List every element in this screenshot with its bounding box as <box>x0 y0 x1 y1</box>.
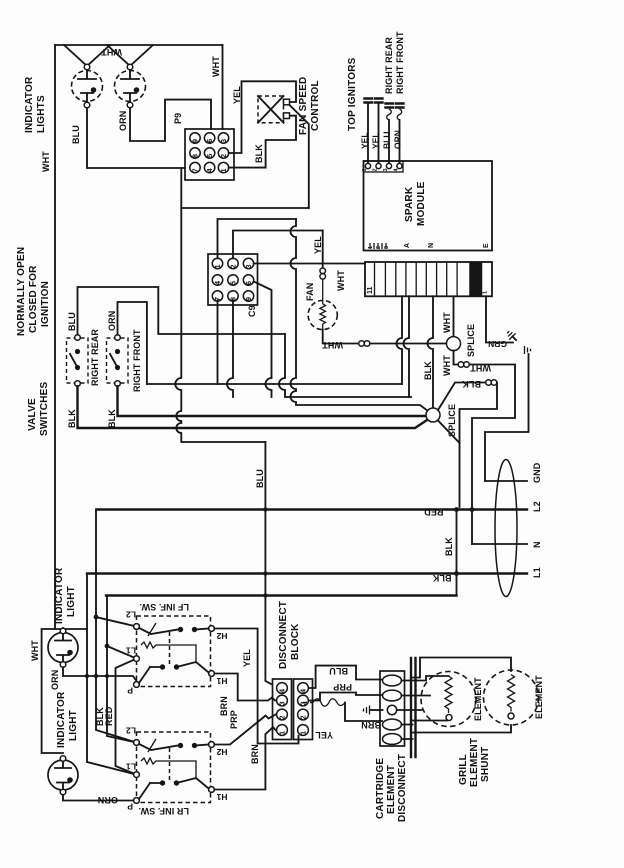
svg-text:WHT: WHT <box>41 151 51 172</box>
wire BLK2 left drop to LR L2 <box>107 596 137 743</box>
LF terminal P <box>127 682 139 696</box>
wire element1 bottom to bars <box>402 721 448 725</box>
indicator lamp C <box>48 628 78 667</box>
wire BLU block B4 to cartridge oval1 <box>309 666 382 688</box>
svg-text:DISCONNECT: DISCONNECT <box>278 601 289 669</box>
wire module drop vertical with hops to splice2 <box>291 219 429 411</box>
spark module lower terminal marks <box>368 243 390 249</box>
label SPARK MODULE <box>404 181 427 226</box>
chassis ground G3 <box>364 706 383 715</box>
junction dot ORN row a <box>85 674 89 678</box>
wire YEL vertical to fan connector <box>322 231 324 269</box>
svg-text:YEL: YEL <box>242 649 252 667</box>
label GRILL ELEMENT SHUNT <box>458 738 491 787</box>
wire BLK inline connector to splice2 <box>438 383 497 508</box>
svg-text:2: 2 <box>376 246 382 249</box>
svg-text:3: 3 <box>383 168 389 171</box>
P9 pin 5 <box>204 148 214 158</box>
svg-text:BLK: BLK <box>254 144 264 163</box>
fan speed control box <box>258 96 284 123</box>
wire strip drop 4 to splice1 <box>453 296 455 337</box>
block A1 <box>277 725 288 736</box>
svg-text:5: 5 <box>231 281 238 285</box>
C9 pin 1 <box>212 258 222 268</box>
svg-text:1: 1 <box>301 731 308 735</box>
block A3 <box>277 695 288 706</box>
wire YEL LF H2 to disconnect B1 <box>214 629 298 744</box>
svg-text:LF INF. SW.: LF INF. SW. <box>139 602 189 612</box>
svg-text:ORN: ORN <box>118 111 128 131</box>
svg-text:CARTRIDGE: CARTRIDGE <box>375 758 386 819</box>
wire strip drop 1 with hop <box>397 296 403 384</box>
svg-text:BRN: BRN <box>219 696 229 716</box>
wire BRN LF H1 to block A3 <box>214 674 275 701</box>
svg-text:YEL: YEL <box>371 132 381 149</box>
block A2 <box>277 709 288 720</box>
svg-text:1: 1 <box>221 168 228 172</box>
fan motor (dashed circle with coil) <box>308 279 337 329</box>
P9 pin 9 <box>190 133 200 143</box>
svg-text:L1: L1 <box>532 567 542 578</box>
wire valve sw2 bottom BLK long run <box>118 386 427 416</box>
wire RED long run (L2) <box>97 508 528 510</box>
svg-text:PRP: PRP <box>229 710 239 729</box>
block B4 <box>298 683 309 694</box>
ignitor 1 electrode <box>365 99 373 164</box>
svg-text:INDICATOR: INDICATOR <box>56 691 67 748</box>
svg-text:YEL: YEL <box>232 86 242 104</box>
wire strip GRN drop to ground <box>486 296 513 342</box>
ignitor 2 electrode <box>375 99 383 164</box>
svg-text:L2: L2 <box>126 610 136 620</box>
svg-text:BLK: BLK <box>107 409 117 428</box>
wire ORN lamp C to LF P <box>63 667 137 684</box>
spark module pin S1 <box>362 163 371 171</box>
svg-text:7: 7 <box>215 297 222 301</box>
wire BLK2 long run <box>106 594 457 596</box>
wire WHT left vertical bus <box>54 45 56 629</box>
svg-text:6: 6 <box>246 281 253 285</box>
svg-text:9: 9 <box>246 297 253 301</box>
wire diag to LF L1 <box>107 646 137 659</box>
svg-text:YEL: YEL <box>313 236 323 254</box>
block B2 <box>298 709 309 720</box>
svg-text:1: 1 <box>215 264 222 268</box>
wire RED left drop to LR L2 <box>96 510 137 743</box>
svg-text:BLU: BLU <box>71 125 81 144</box>
svg-text:L2: L2 <box>126 726 136 736</box>
block B3 <box>298 695 309 706</box>
svg-text:4: 4 <box>280 689 287 693</box>
svg-text:WHT: WHT <box>211 56 221 77</box>
svg-text:3: 3 <box>384 246 390 249</box>
wire valve sw1 top to mid bus <box>78 287 286 335</box>
svg-text:SHUNT: SHUNT <box>480 747 491 782</box>
svg-text:BLU: BLU <box>382 132 392 149</box>
svg-text:WHT: WHT <box>442 312 452 333</box>
wire WHT top bus to P9 pin3 <box>222 45 224 129</box>
svg-text:LIGHT: LIGHT <box>68 710 79 741</box>
junction dot LF L1 diag <box>105 644 110 649</box>
valve switch RIGHT FRONT <box>107 335 129 387</box>
svg-text:RED: RED <box>424 507 444 517</box>
power cord oval <box>495 460 517 597</box>
svg-text:N: N <box>532 541 542 548</box>
wire ignition net horizontal to BLU vertical <box>181 207 308 209</box>
junction dot BLU/BLK2 <box>263 593 267 597</box>
P9 pin 7 <box>190 162 200 172</box>
svg-text:ELEMENT: ELEMENT <box>469 738 480 787</box>
svg-text:8: 8 <box>193 154 200 158</box>
svg-text:RIGHT REAR: RIGHT REAR <box>384 37 394 94</box>
wire C9 pin7 down to valve bus <box>217 300 219 384</box>
disconnect block strip B <box>294 679 313 740</box>
P9 pin 3 <box>218 133 228 143</box>
junction dot ORN row c <box>105 674 109 678</box>
label INDICATOR LIGHTS <box>24 76 47 133</box>
svg-text:GRILL: GRILL <box>458 754 469 785</box>
wire BLK left drop to LR L1 <box>87 574 137 775</box>
svg-text:LIGHTS: LIGHTS <box>36 95 47 133</box>
svg-text:ORN: ORN <box>107 311 117 331</box>
C9 pin 8 <box>228 291 238 301</box>
wire BLU vertical to disconnect block A4 <box>265 442 271 684</box>
spark module pin S3 <box>383 163 392 171</box>
svg-text:ORN: ORN <box>393 130 403 149</box>
cartridge oval 2 <box>383 690 402 701</box>
svg-text:L2: L2 <box>532 501 542 512</box>
svg-text:YEL: YEL <box>360 132 370 149</box>
svg-text:SWITCHES: SWITCHES <box>39 381 50 436</box>
svg-text:ORN: ORN <box>50 670 60 690</box>
svg-text:1: 1 <box>368 246 374 249</box>
C9 pin 3 <box>243 258 253 268</box>
P9 pin 1 <box>218 162 228 172</box>
LR terminal L2 <box>126 726 140 746</box>
svg-text:A: A <box>404 243 411 248</box>
wire valve sw1 branch vertical with hop to splice row <box>279 334 411 397</box>
svg-text:1: 1 <box>362 168 368 171</box>
junction dot BLU/RED <box>263 507 267 511</box>
svg-text:ELEMENT: ELEMENT <box>534 675 544 719</box>
svg-text:8: 8 <box>231 297 238 301</box>
svg-text:2: 2 <box>280 715 287 719</box>
valve switch RIGHT REAR <box>67 335 89 387</box>
LR switch internals <box>139 739 209 799</box>
svg-text:LR INF. SW.: LR INF. SW. <box>138 806 189 816</box>
wire strip drop 2 with hop <box>404 296 409 397</box>
svg-text:7: 7 <box>193 168 200 172</box>
P9 pin 8 <box>190 148 200 158</box>
junction dot L2 b <box>470 507 475 512</box>
svg-text:E: E <box>483 243 490 248</box>
svg-text:H2: H2 <box>216 747 227 757</box>
svg-text:BLK: BLK <box>462 379 481 389</box>
wire BLK long run (L1) <box>87 572 527 574</box>
svg-text:RIGHT FRONT: RIGHT FRONT <box>132 329 142 392</box>
wire BLU vertical ignition bus with hops <box>175 168 265 442</box>
wire C9 pin2 up and right to fan YEL <box>233 231 323 259</box>
LF terminal H1 <box>209 671 228 686</box>
svg-text:MODULE: MODULE <box>416 181 427 226</box>
wire WHT splice1 down to neutral run <box>454 351 516 544</box>
svg-text:P9: P9 <box>173 113 183 124</box>
svg-text:DISCONNECT: DISCONNECT <box>397 754 408 822</box>
svg-text:WHT: WHT <box>30 640 40 661</box>
LF switch internals <box>139 623 209 683</box>
indicator lamp A (neon, dashed) <box>72 64 103 108</box>
ignitor 4 electrode (spark) <box>396 104 404 164</box>
svg-text:LIGHT: LIGHT <box>66 586 77 617</box>
terminal strip P1 <box>365 262 492 296</box>
svg-text:SPLICE: SPLICE <box>466 324 476 357</box>
svg-text:RIGHT FRONT: RIGHT FRONT <box>395 31 405 94</box>
wire V-drop to lamp A <box>64 45 110 66</box>
svg-text:FAN SPEED: FAN SPEED <box>298 77 309 135</box>
C9 pin 9 <box>243 291 253 301</box>
connector P9 <box>173 113 234 180</box>
svg-text:INDICATOR: INDICATOR <box>24 76 35 133</box>
wire C9 pin3 right to strip (WHT) <box>254 263 365 265</box>
splice 1 <box>447 337 461 351</box>
svg-text:BLU: BLU <box>329 666 348 676</box>
svg-text:N: N <box>428 243 435 248</box>
label DISCONNECT BLOCK <box>278 601 301 669</box>
wire top feed to element2 <box>411 658 511 678</box>
label INDICATOR LIGHT (lower) <box>56 691 79 748</box>
spark module pin S4 <box>394 163 403 171</box>
infinite switch LF box <box>137 602 211 687</box>
label NORMALLY OPEN CLOSED FOR IGNITION <box>16 247 51 336</box>
wire GND to power cord <box>485 480 527 482</box>
svg-text:1: 1 <box>483 291 489 294</box>
svg-text:INDICATOR: INDICATOR <box>54 567 65 624</box>
LF terminal H2 <box>209 626 228 641</box>
svg-text:H2: H2 <box>216 631 227 641</box>
wire fan speed control T1 diagonal to ignition net <box>290 105 309 208</box>
svg-text:WHT: WHT <box>470 363 491 373</box>
chassis ground G2 with GRN drop <box>485 346 531 481</box>
LR terminal H1 <box>209 787 228 802</box>
label INDICATOR LIGHT (upper) <box>54 567 77 624</box>
wire PRP LR H2 to block A2 <box>214 715 275 745</box>
wire fan bottom WHT to splice1 <box>323 330 448 344</box>
cartridge oval 3 (ground) <box>387 705 396 714</box>
junction dot BLU/BLK <box>263 571 267 575</box>
svg-text:C9: C9 <box>247 305 257 317</box>
block B1 <box>298 725 309 736</box>
disconnect block strip A <box>273 679 292 740</box>
svg-text:BLK: BLK <box>423 361 433 380</box>
svg-text:P: P <box>127 802 133 812</box>
svg-text:NORMALLY OPEN: NORMALLY OPEN <box>16 247 27 336</box>
wire YEL P9 pin2 to fan speed control T1 <box>229 81 296 153</box>
svg-text:CLOSED FOR: CLOSED FOR <box>28 265 39 333</box>
spark module box <box>364 161 493 251</box>
chassis ground G1 <box>505 329 519 343</box>
svg-text:BLK: BLK <box>444 537 454 556</box>
wire diag to LF L2 <box>96 617 137 627</box>
inline connector WHT fan-splice <box>359 341 370 347</box>
svg-text:BLK: BLK <box>67 409 77 428</box>
svg-text:ELEMENT: ELEMENT <box>473 677 483 721</box>
svg-text:L1: L1 <box>126 762 136 772</box>
LR terminal P <box>127 798 139 812</box>
infinite switch LR box <box>137 732 211 816</box>
C9 pin 6 <box>243 275 253 285</box>
wire oval3 stub <box>397 709 422 711</box>
splice 2 <box>426 408 440 422</box>
C9 pin 7 <box>212 291 222 301</box>
wire N to power cord <box>472 543 527 545</box>
svg-text:BLU: BLU <box>255 469 265 488</box>
wire valve sw1 bottom BLK long run <box>78 386 429 428</box>
wire element2 bottom run <box>402 725 512 739</box>
C9 pin 2 <box>228 258 238 268</box>
indicator lamp D <box>48 756 78 795</box>
inline connector BLK <box>486 380 497 386</box>
wire PRP block B3 to cartridge oval2 <box>309 693 382 701</box>
svg-text:3: 3 <box>246 264 253 268</box>
svg-text:2: 2 <box>373 168 379 171</box>
cartridge element disconnect box <box>380 671 405 746</box>
svg-text:WHT: WHT <box>322 340 343 350</box>
fan inline connector <box>320 268 326 279</box>
P9 pin 2 <box>218 148 228 158</box>
svg-text:BRN: BRN <box>250 744 260 764</box>
svg-text:2: 2 <box>231 264 238 268</box>
svg-text:RIGHT REAR: RIGHT REAR <box>90 329 100 386</box>
wire WHT top bus <box>55 44 223 46</box>
cartridge disconnect bars <box>411 658 416 757</box>
junction dot ORN row b <box>94 674 98 678</box>
svg-text:BRN: BRN <box>361 720 381 730</box>
wire C9 pin1 up and right to module drop <box>218 219 297 258</box>
C9 pin 4 <box>212 275 222 285</box>
junction dot LF L2 diag <box>94 615 99 620</box>
svg-text:4: 4 <box>215 281 222 285</box>
svg-text:IGNITION: IGNITION <box>40 281 51 327</box>
label CARTRIDGE ELEMENT DISCONNECT <box>375 754 408 822</box>
wire V-drop to lamp B <box>107 45 153 66</box>
wire LF L1 link down to LR L1 <box>116 659 137 775</box>
inline connector WHT neutral <box>458 362 469 368</box>
LR terminal L1 <box>126 762 140 778</box>
svg-text:BLK: BLK <box>432 573 451 583</box>
cartridge oval 1 <box>383 675 402 686</box>
svg-text:BLU: BLU <box>67 312 77 331</box>
svg-text:4: 4 <box>207 168 214 172</box>
fan speed control terminal T1 <box>284 99 290 105</box>
svg-text:H1: H1 <box>216 676 227 686</box>
svg-text:2: 2 <box>221 154 228 158</box>
junction dot L2 a <box>454 507 459 512</box>
svg-text:FAN: FAN <box>305 283 315 301</box>
wire ORN lamp B to P9 pin6 <box>130 100 211 141</box>
wire squiggle B2 region to oval4 <box>303 699 382 721</box>
wire WHT to lamp C and lamp D <box>42 628 87 753</box>
heating element 1 (dashed circle) <box>421 672 476 727</box>
svg-text:SPARK: SPARK <box>404 186 415 222</box>
heating element 2 (dashed circle) <box>484 670 539 725</box>
cartridge oval 5 <box>383 734 402 745</box>
spark module pin S2 <box>373 163 382 171</box>
wire C9 pin6 diagonal down to splice row <box>254 282 272 398</box>
svg-text:6: 6 <box>207 139 214 143</box>
svg-text:1: 1 <box>280 731 287 735</box>
indicator lamp B (neon, dashed) <box>115 64 146 108</box>
wire splice2 diagonal output <box>438 421 460 444</box>
wire oval2 stub <box>402 695 431 697</box>
svg-text:3: 3 <box>221 139 228 143</box>
svg-text:9: 9 <box>193 139 200 143</box>
svg-text:WHT: WHT <box>336 270 346 291</box>
svg-text:BLOCK: BLOCK <box>290 623 301 660</box>
wire strip drop 3 with hop to splice2 <box>428 296 434 408</box>
P9 pin 4 <box>204 162 214 172</box>
wire C9 pin8 down with hop to splice row <box>227 300 233 397</box>
wire BLU lamp A to P9 pin7 <box>87 108 185 168</box>
svg-text:GRN: GRN <box>488 339 507 349</box>
label VALVE SWITCHES <box>27 381 50 436</box>
wire oval1 to element1 top <box>402 676 449 681</box>
svg-text:3: 3 <box>280 701 287 705</box>
svg-text:TOP IGNITORS: TOP IGNITORS <box>347 57 358 131</box>
svg-text:VALVE: VALVE <box>27 398 38 431</box>
block A4 <box>277 683 288 694</box>
svg-text:CONTROL: CONTROL <box>310 80 321 131</box>
fan speed control terminal T2 <box>284 113 290 119</box>
LF terminal L1 <box>126 646 140 662</box>
svg-text:PRP: PRP <box>333 682 352 692</box>
svg-text:2: 2 <box>301 715 308 719</box>
wire ORN lamp D to LR P <box>63 795 137 801</box>
P9 pin 6 <box>204 133 214 143</box>
svg-text:P: P <box>127 686 133 696</box>
cartridge oval 4 <box>383 719 402 730</box>
connector C9 <box>208 254 258 317</box>
C9 pin 5 <box>228 275 238 285</box>
wire valve sw2 top to ignition vertical <box>118 302 147 384</box>
svg-text:L1: L1 <box>126 646 136 656</box>
ignitor 3 electrode (spark) <box>386 104 394 164</box>
LF terminal L2 <box>126 610 140 630</box>
svg-text:11: 11 <box>367 286 374 294</box>
LR terminal H2 <box>209 742 228 757</box>
wire valve/C9 pin7 long run to strip drop <box>147 383 402 385</box>
svg-text:5: 5 <box>207 154 214 158</box>
svg-text:YEL: YEL <box>315 730 333 740</box>
label FAN SPEED CONTROL <box>298 77 321 135</box>
svg-text:4: 4 <box>301 689 308 693</box>
svg-text:GND: GND <box>532 462 542 483</box>
svg-text:RED: RED <box>104 706 114 726</box>
wire BRN LR H1 to block A1 <box>214 727 275 790</box>
wire BLK P9 pin1 to fan speed control T2 <box>229 116 296 168</box>
svg-text:WHT: WHT <box>442 355 452 376</box>
junction dot L1 <box>454 571 459 576</box>
wire junction vertical L2-L1 <box>456 510 458 596</box>
svg-text:ELEMENT: ELEMENT <box>386 765 397 814</box>
svg-text:H1: H1 <box>216 792 227 802</box>
